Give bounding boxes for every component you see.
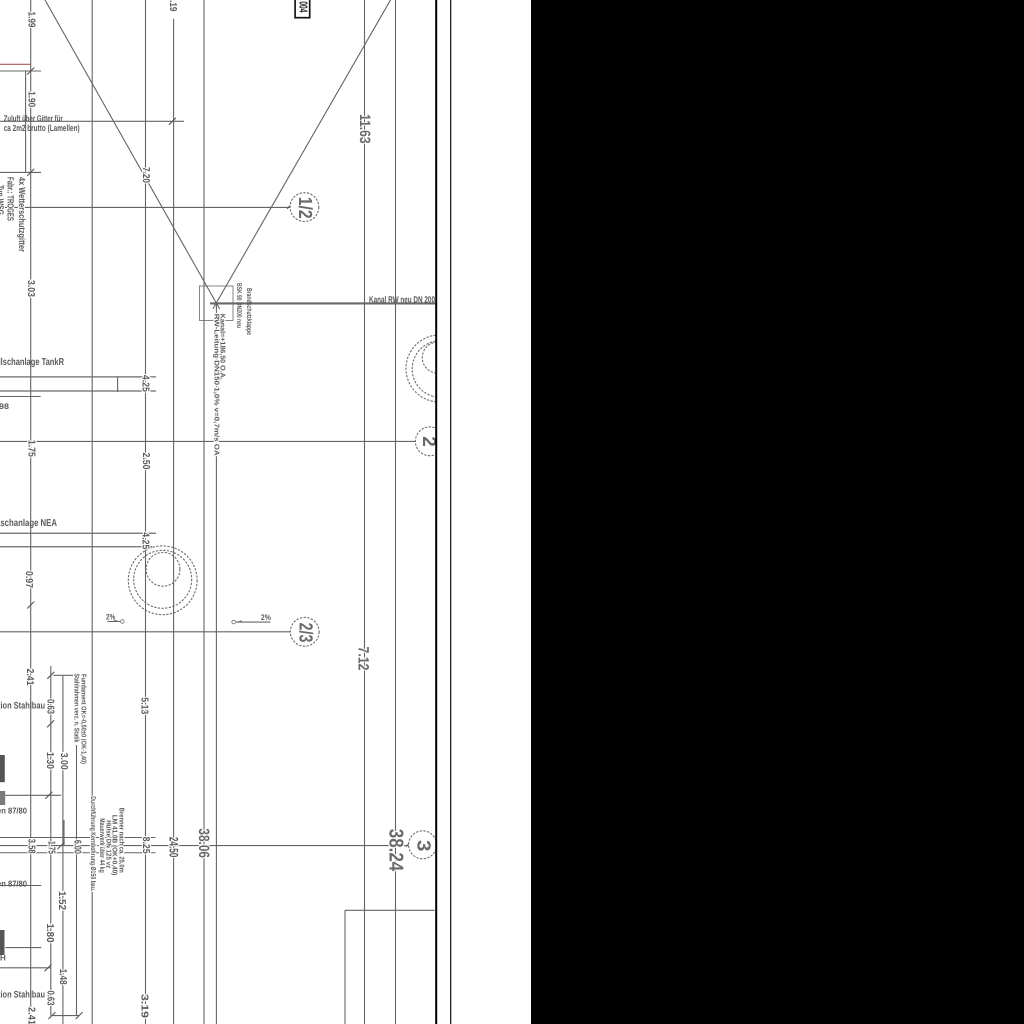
svg-text:7.20: 7.20 [140,167,151,183]
svg-text:üllschanlage TankR: üllschanlage TankR [0,357,65,368]
svg-text:38.06: 38.06 [195,828,212,858]
svg-text:1.19: 1.19 [167,0,178,12]
svg-text:1.80: 1.80 [44,924,55,943]
svg-text:1.75: 1.75 [46,841,57,854]
svg-text:BSK 90 DN200 neu: BSK 90 DN200 neu [235,283,242,328]
svg-text:2.41: 2.41 [26,1007,37,1024]
svg-text:Fabr.: TROGES: Fabr.: TROGES [6,177,16,221]
svg-text:004: 004 [297,1,309,12]
svg-text:0.97: 0.97 [23,571,34,588]
svg-text:4.25: 4.25 [139,375,150,392]
svg-text:5.13: 5.13 [138,697,149,714]
svg-text:4.25: 4.25 [140,532,151,549]
svg-text:2.41: 2.41 [24,669,35,686]
svg-text:tion Stahlbau: tion Stahlbau [0,990,45,1001]
svg-text:Stahlrahmen verz. n. Statik: Stahlrahmen verz. n. Statik [73,674,81,743]
svg-text:2%: 2% [261,613,271,622]
svg-text:Brandschutzklappe: Brandschutzklappe [245,288,253,335]
svg-text:H: H [0,954,6,963]
svg-text:Durchführung Kernbohrung Ø150: Durchführung Kernbohrung Ø150 bau. [89,796,97,891]
svg-text:3.19: 3.19 [138,994,149,1019]
svg-text:aschanlage NEA: aschanlage NEA [0,518,57,529]
svg-text:en 87/80: en 87/80 [0,806,27,816]
svg-text:2%: 2% [106,612,115,621]
svg-text:0.63: 0.63 [44,699,55,714]
svg-text:0.63: 0.63 [45,991,56,1006]
svg-text:3.03: 3.03 [25,280,36,297]
svg-text:2/3: 2/3 [295,623,316,643]
svg-text:1.52: 1.52 [56,891,67,910]
svg-text:1.48: 1.48 [57,969,68,985]
svg-text:ca 2m2 brutto (Lamellen): ca 2m2 brutto (Lamellen) [4,123,80,133]
svg-text:98: 98 [0,402,10,411]
svg-text:1/2: 1/2 [294,197,315,219]
svg-text:Kanal RW neu DN 200: Kanal RW neu DN 200 [369,294,435,304]
svg-text:LM 41,0B (OK+0,40): LM 41,0B (OK+0,40) [110,815,118,876]
svg-text:1.90: 1.90 [25,91,36,107]
svg-text:Typ WSG: Typ WSG [0,185,6,215]
svg-text:3.58: 3.58 [25,839,36,854]
svg-text:RW-Leitung DN150 1,0% v=0,7m/s: RW-Leitung DN150 1,0% v=0,7m/s OA [213,314,221,456]
svg-text:4x Wetterschutzgitter: 4x Wetterschutzgitter [17,177,27,252]
svg-text:Brenner nach ca. 25,0m: Brenner nach ca. 25,0m [118,808,126,873]
svg-text:3.00: 3.00 [58,753,69,770]
svg-text:tion Stahlbau: tion Stahlbau [0,701,45,712]
svg-text:38.24: 38.24 [384,829,406,872]
svg-text:11.63: 11.63 [356,114,373,144]
svg-text:8.25: 8.25 [140,837,151,854]
svg-text:6.00: 6.00 [71,840,82,854]
svg-text:1.75: 1.75 [26,440,37,457]
svg-text:1.30: 1.30 [44,752,55,769]
svg-text:24.50: 24.50 [167,837,181,858]
svg-text:7.12: 7.12 [355,647,372,671]
svg-text:2.50: 2.50 [140,453,151,470]
svg-text:3: 3 [413,840,434,852]
svg-text:1.99: 1.99 [25,12,36,28]
svg-text:en 87/80: en 87/80 [0,879,27,889]
